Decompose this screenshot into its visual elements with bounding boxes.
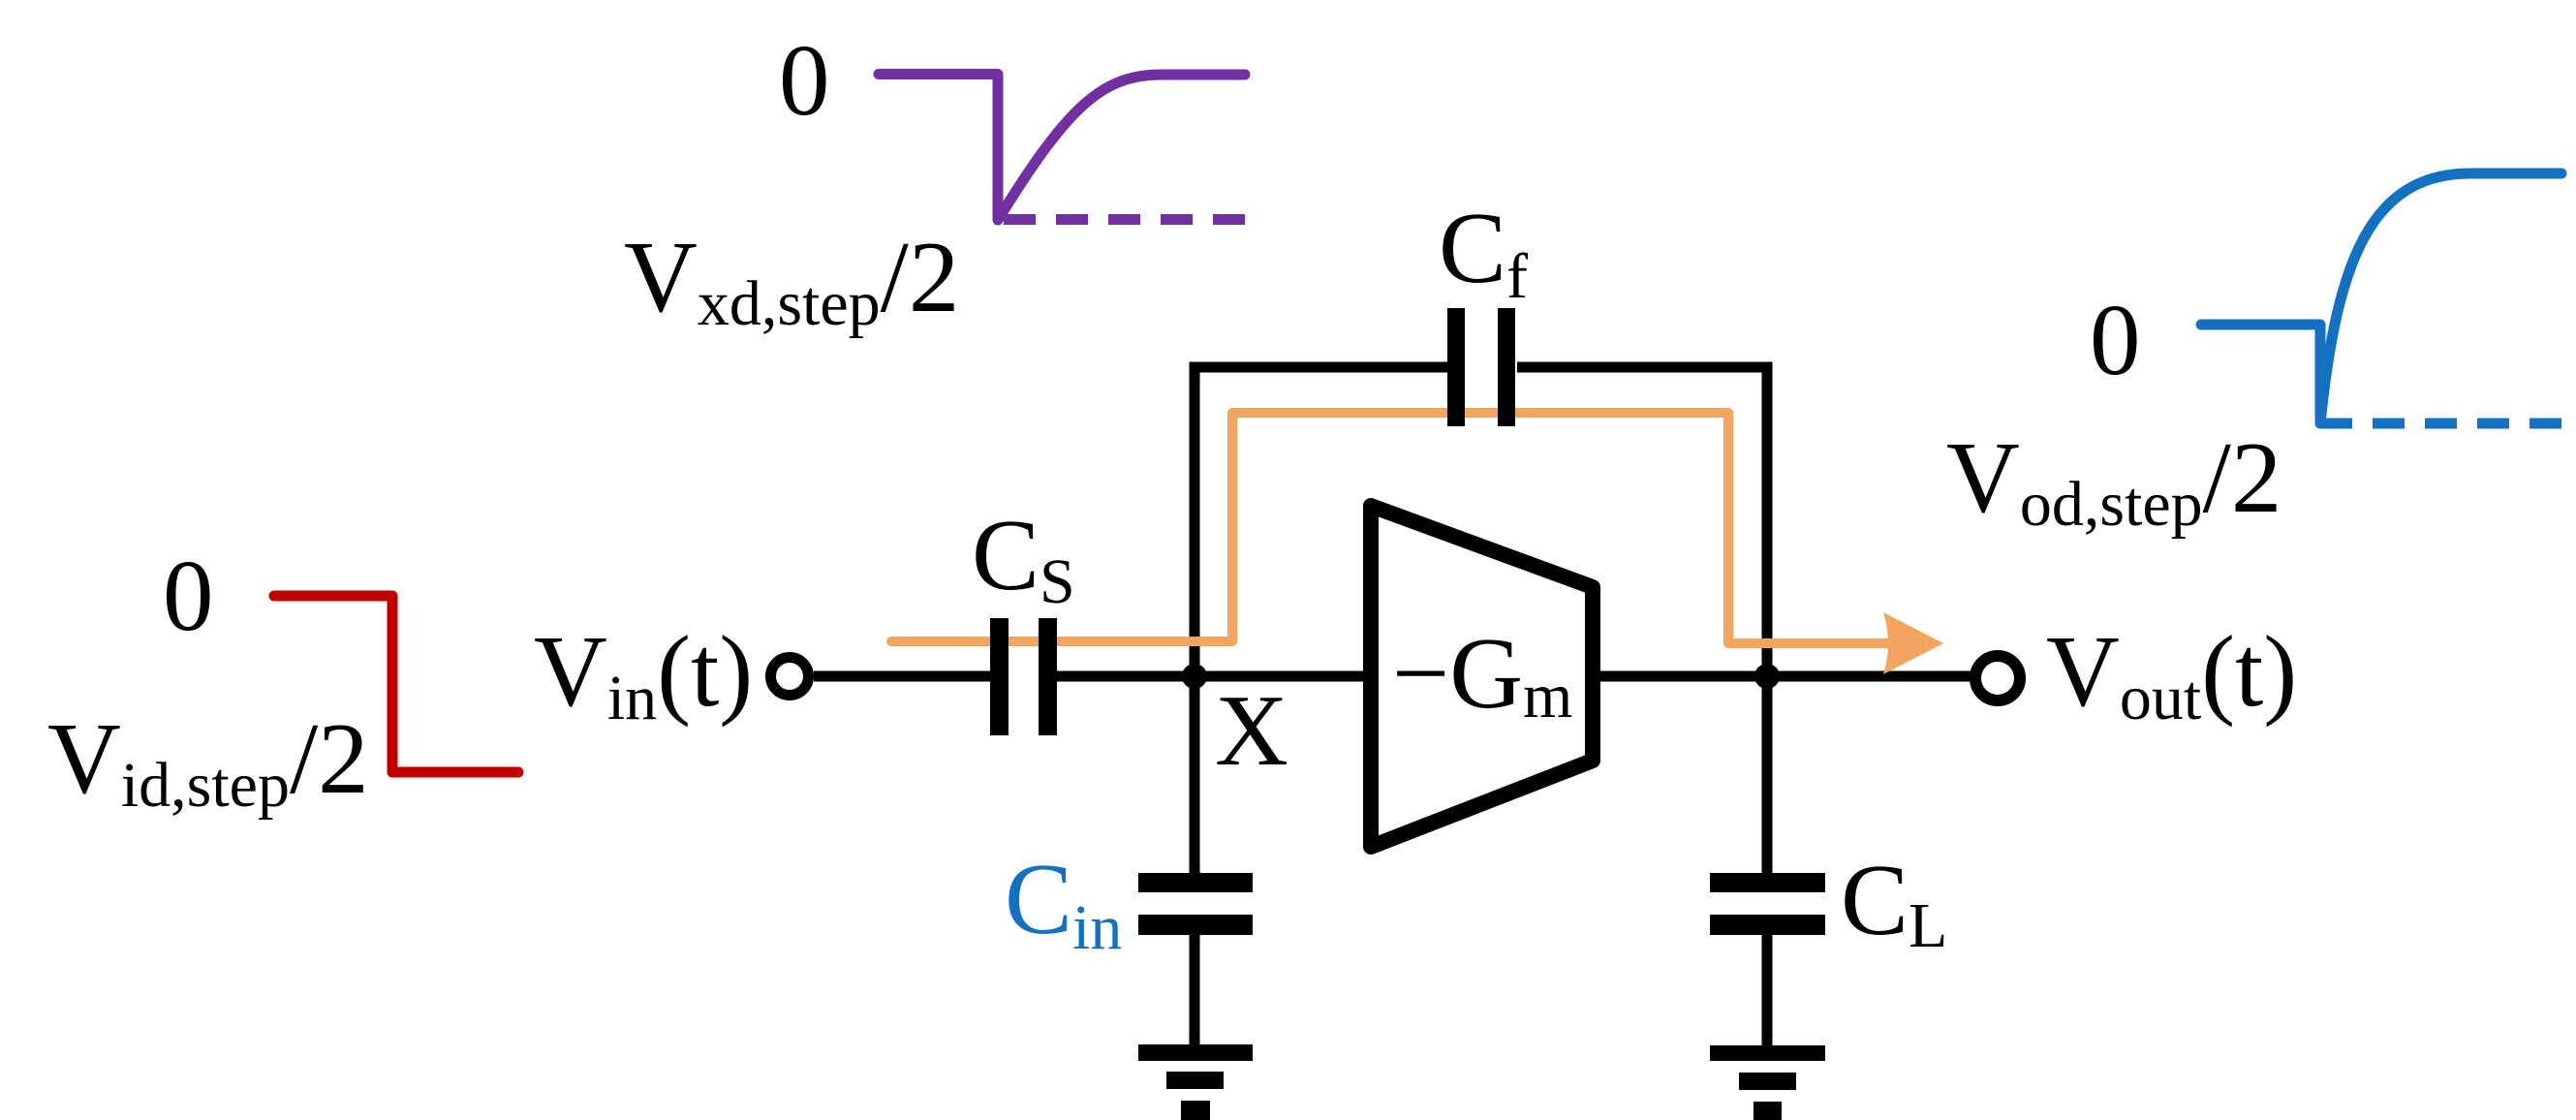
svg-text:0: 0 — [2090, 283, 2141, 396]
svg-text:0: 0 — [163, 539, 214, 652]
svg-text:0: 0 — [779, 23, 830, 137]
svg-text:X: X — [1215, 673, 1288, 787]
